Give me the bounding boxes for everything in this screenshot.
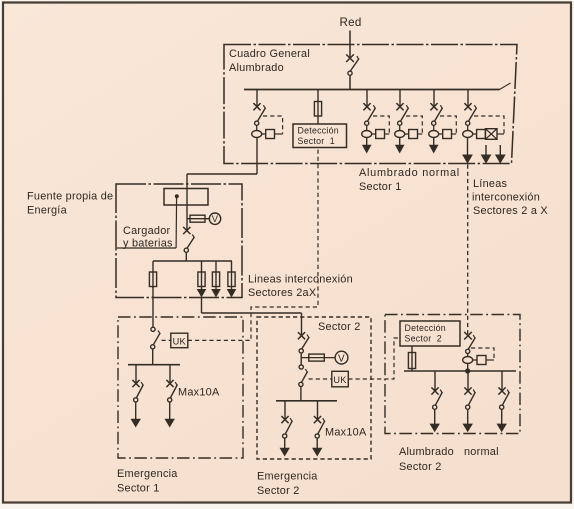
contactor Q4 operating coil bbox=[463, 131, 473, 138]
svg-text:Emergencia: Emergencia bbox=[257, 471, 318, 483]
contactor QB mech linkage dashed bbox=[263, 116, 283, 134]
wire charger feed into battery box bbox=[186, 174, 188, 231]
switch N2c cross mark bbox=[498, 387, 505, 394]
svg-text:Alumbrado: Alumbrado bbox=[399, 446, 454, 458]
contactor Q1 aux block bbox=[376, 130, 385, 139]
svg-text:Alumbrado normal: Alumbrado normal bbox=[359, 167, 460, 179]
wire drop N2b bbox=[467, 371, 469, 391]
switch S2in blade bbox=[302, 335, 309, 349]
label Alumbrado normal (sector1) bbox=[359, 167, 460, 179]
contactor K1 bottom contact bbox=[151, 345, 155, 349]
switch S2in cross mark bbox=[298, 332, 305, 339]
switch S1b blade bbox=[170, 382, 177, 398]
svg-text:Sectores 2aX: Sectores 2aX bbox=[248, 287, 317, 299]
svg-text:UK: UK bbox=[333, 375, 347, 385]
wire Q1 contact to coil bbox=[366, 125, 368, 130]
svg-text:Detección: Detección bbox=[405, 323, 446, 333]
contactor A2 mech linkage dashed bbox=[471, 348, 494, 360]
label leader line from battery dot bbox=[175, 196, 178, 248]
dashed link blade to UK2 bbox=[309, 378, 332, 380]
wire Q1 coil to aux block bbox=[372, 133, 376, 135]
arrow N2b lamp feeder bbox=[463, 424, 473, 433]
node Red label bbox=[340, 16, 362, 29]
svg-text:Sector 2: Sector 2 bbox=[318, 321, 361, 333]
breaker Q2 blade bbox=[400, 105, 408, 121]
bus battery distribution bbox=[153, 260, 232, 262]
wire N2c to arrow bbox=[501, 409, 503, 424]
wire bus drop Q2 bbox=[399, 89, 401, 107]
contactor Q2 mech linkage dashed bbox=[406, 116, 422, 134]
svg-text:Lineas interconexión: Lineas interconexión bbox=[248, 274, 353, 286]
svg-text:Alumbrado: Alumbrado bbox=[229, 62, 284, 74]
switch S2b cross mark bbox=[314, 416, 321, 423]
svg-text:Energía: Energía bbox=[27, 205, 68, 217]
contactor K2 blade bbox=[302, 369, 308, 382]
wire sector2 feed horizontal bbox=[202, 312, 302, 314]
contactor A2 operating coil bbox=[463, 357, 473, 364]
arrow S2a lamp feeder bbox=[280, 448, 290, 457]
switch S1a cross mark bbox=[132, 380, 139, 387]
arrow S1b lamp feeder bbox=[165, 419, 175, 428]
wire S1a to arrow bbox=[135, 402, 137, 419]
label Sector 1 bbox=[359, 181, 402, 193]
contactor Q3 aux block bbox=[443, 130, 452, 139]
fuse F1 detection sector 1 bbox=[314, 102, 321, 117]
wire drop S2b bbox=[317, 401, 319, 420]
label y baterias bbox=[123, 237, 173, 249]
arrow S2b lamp feeder bbox=[312, 448, 322, 457]
switch N2c blade bbox=[502, 390, 509, 406]
contactor Q3 mech linkage dashed bbox=[440, 116, 456, 134]
breaker Q1 hinge contact bbox=[365, 121, 369, 125]
bus main distribution bbox=[244, 89, 500, 91]
fuse interconnection 1 bbox=[198, 272, 205, 287]
arrow interconnection 1 bbox=[197, 289, 207, 298]
wire sector2 feed drop bbox=[301, 313, 303, 336]
contactor Q4 mech linkage dashed bbox=[474, 116, 504, 134]
switch A2 cross mark bbox=[464, 332, 472, 340]
arrow interconnection 2 bbox=[211, 289, 221, 298]
arrow Q4 interconnection feeder bbox=[462, 155, 473, 164]
switch S1b cross mark bbox=[166, 380, 173, 387]
contactor A2 aux block bbox=[477, 356, 486, 365]
wire QB contact to coil bbox=[256, 125, 258, 130]
switch battery cross mark bbox=[183, 227, 190, 234]
label Energia bbox=[27, 205, 68, 217]
wire S2b to arrow bbox=[316, 438, 318, 448]
switch battery blade bbox=[187, 234, 195, 248]
wire charger feed horizontal bbox=[187, 173, 257, 175]
svg-text:Sector 2: Sector 2 bbox=[399, 461, 442, 473]
wire K1 to bus bbox=[152, 349, 154, 365]
breaker Q3 cross mark bbox=[430, 103, 437, 110]
wire sector2 feed down bbox=[201, 298, 203, 314]
switch Q0 hinge contact bbox=[348, 71, 352, 75]
wire Q1 linkage stub bbox=[385, 133, 390, 135]
label Fuente propia de bbox=[27, 191, 113, 203]
wire interconnection drop 3 bbox=[231, 261, 233, 290]
switch N2a hinge contact bbox=[433, 405, 437, 409]
label box bottom edge Cargador bbox=[117, 247, 176, 249]
svg-text:Sector 1: Sector 1 bbox=[117, 483, 160, 495]
switch S1b hinge contact bbox=[168, 398, 172, 402]
wire interconnection drop 1 bbox=[201, 261, 203, 290]
svg-text:Emergencia: Emergencia bbox=[117, 468, 178, 480]
wire S2 mid bbox=[300, 353, 302, 365]
dashed link UK2 to detection2 bbox=[348, 338, 400, 379]
svg-text:Sector 1: Sector 1 bbox=[359, 181, 402, 193]
label Deteccion (sector 1) bbox=[298, 126, 339, 136]
wire A2 linkage stub bbox=[486, 359, 494, 361]
bus emergencia sector 1 bbox=[128, 364, 180, 366]
label Emergencia (2) bbox=[257, 471, 318, 483]
dashed link blade to UK1 bbox=[162, 339, 171, 341]
breaker Q1 cross mark bbox=[363, 103, 370, 110]
enclosure Emergencia Sector 1 bbox=[118, 317, 243, 458]
contactor QB operating coil bbox=[252, 131, 262, 138]
svg-text:Max10A: Max10A bbox=[325, 427, 367, 439]
breaker Q2 cross mark bbox=[396, 103, 403, 110]
wire S2a to arrow bbox=[284, 438, 286, 448]
switch S2in hinge contact bbox=[299, 349, 303, 353]
dashed interconnection line vertical bbox=[467, 165, 469, 336]
wire bus drop detection 1 bbox=[317, 89, 319, 124]
contactor K1 blade bbox=[153, 330, 160, 344]
wire drop N2a bbox=[434, 371, 436, 391]
label Lineas (right) bbox=[473, 178, 508, 190]
svg-text:Cuadro General: Cuadro General bbox=[229, 48, 310, 60]
wire bus drop Q3 bbox=[433, 89, 435, 107]
wire voltmeter tap 2 bbox=[301, 357, 335, 359]
wire QB linkage stub bbox=[275, 133, 283, 135]
wire emergency line down bbox=[152, 287, 154, 328]
svg-text:normal: normal bbox=[464, 446, 499, 458]
svg-text:Sector 2: Sector 2 bbox=[405, 334, 442, 344]
breaker QB cross mark bbox=[253, 103, 260, 110]
switch N2c hinge contact bbox=[500, 405, 504, 409]
svg-text:Sector 1: Sector 1 bbox=[298, 136, 335, 146]
contactor Q4 crossed aux block bbox=[485, 129, 497, 140]
contactor Q1 mech linkage dashed bbox=[373, 116, 389, 134]
wire Q0 to bus bbox=[349, 75, 351, 89]
contactor K2 bottom contact bbox=[299, 382, 303, 386]
wire bus drop Q4 bbox=[467, 89, 469, 107]
switch battery hinge contact bbox=[184, 248, 188, 252]
wire bus drop charger feed bbox=[256, 89, 258, 107]
label Cuadro General bbox=[229, 48, 310, 60]
label normal (bottom right) bbox=[464, 446, 499, 458]
label Sector 2 (bottom) bbox=[257, 485, 300, 497]
switch S2a blade bbox=[285, 418, 292, 434]
fuse interconnection 2 bbox=[212, 272, 219, 287]
label Alumbrado (bottom right) bbox=[399, 446, 454, 458]
label Sectores 2aX (right) bbox=[473, 205, 548, 217]
label Sectores 2aX (mid) bbox=[248, 287, 317, 299]
svg-text:y baterias: y baterias bbox=[123, 237, 173, 249]
wire Q1 outgoing bbox=[366, 138, 368, 146]
arrow S1a lamp feeder bbox=[131, 419, 141, 428]
wire charger feed down bbox=[256, 138, 258, 175]
device Deteccion Sector 1 box bbox=[293, 124, 347, 148]
enclosure Alumbrado normal Sector 2 bbox=[385, 315, 520, 434]
battery charger terminal dot bbox=[175, 194, 179, 198]
label Cargador bbox=[123, 225, 171, 237]
label Max10A sector 1 bbox=[178, 387, 220, 399]
svg-text:Sector 2: Sector 2 bbox=[257, 485, 300, 497]
wire Q4 contact to coil bbox=[467, 125, 469, 130]
arrow extra feeder b bbox=[495, 145, 506, 164]
contactor Q2 aux block bbox=[409, 130, 418, 139]
switch N2b blade bbox=[468, 390, 475, 406]
switch N2b cross mark bbox=[464, 387, 471, 394]
wire Q3 contact to coil bbox=[433, 125, 435, 130]
label Max10A sector 2 bbox=[325, 427, 367, 439]
switch S2b hinge contact bbox=[315, 434, 319, 438]
wire Q3 linkage stub bbox=[452, 133, 457, 135]
svg-text:Líneas: Líneas bbox=[473, 178, 508, 190]
enclosure Cargador y baterias bbox=[116, 184, 242, 298]
dashed link UK1 to detection1 path bbox=[188, 148, 318, 341]
wire drop N2c bbox=[501, 371, 503, 391]
junction dot sector 2 bus bbox=[465, 368, 470, 373]
wire Q2 outgoing bbox=[399, 138, 401, 146]
label UK sector 1 bbox=[173, 336, 187, 346]
switch S2a cross mark bbox=[281, 416, 288, 423]
bus end flick to enclosure edge bbox=[500, 83, 511, 90]
contactor K2 top contact bbox=[299, 365, 303, 369]
switch S1a blade bbox=[136, 382, 143, 398]
contactor Q4 aux block bbox=[477, 130, 486, 139]
switch N2b hinge contact bbox=[466, 405, 470, 409]
label Emergencia (1) bbox=[117, 468, 178, 480]
switch A2 blade bbox=[468, 335, 475, 349]
wire S1b to arrow bbox=[169, 402, 171, 419]
contactor QB aux block bbox=[266, 130, 275, 139]
label interconexion (right) bbox=[472, 192, 540, 204]
wire emergency drop bbox=[152, 261, 154, 288]
breaker Q1 blade bbox=[367, 105, 375, 121]
fuse detection sector 2 bbox=[408, 353, 415, 369]
switch Q0 blade bbox=[350, 56, 359, 71]
wire QB coil to aux block bbox=[262, 133, 266, 135]
label Sector 2 (bottom right) bbox=[399, 461, 442, 473]
voltmeter V2 bbox=[335, 351, 348, 364]
contactor K1 top contact bbox=[151, 327, 155, 331]
relay UK sector 1 box bbox=[171, 333, 188, 348]
svg-text:UK: UK bbox=[173, 336, 187, 346]
switch N2a blade bbox=[435, 390, 442, 406]
switch A2 hinge contact bbox=[466, 349, 470, 353]
label Alumbrado bbox=[229, 62, 284, 74]
switch S2b blade bbox=[318, 418, 325, 434]
label Sector 1 (detection) bbox=[298, 136, 335, 146]
svg-text:V: V bbox=[338, 354, 345, 365]
label Sector 1 (bottom) bbox=[117, 483, 160, 495]
fuse voltmeter 2 bbox=[309, 354, 325, 361]
arrow N2c lamp feeder bbox=[497, 424, 507, 433]
wire drop S2a bbox=[284, 401, 286, 420]
svg-text:Detección: Detección bbox=[298, 126, 339, 136]
arrow Q2 outgoing feeder bbox=[395, 145, 405, 154]
wire bus drop Q1 bbox=[366, 89, 368, 107]
switch N2a cross mark bbox=[431, 387, 438, 394]
wire A2 contact to coil bbox=[467, 354, 469, 357]
switch Q0 cross mark bbox=[346, 54, 354, 62]
label Lineas interconexion (mid) bbox=[248, 274, 353, 286]
contactor Q2 operating coil bbox=[395, 131, 405, 138]
enclosure Sector 2 bbox=[257, 317, 371, 459]
svg-text:interconexión: interconexión bbox=[472, 192, 540, 204]
wire battery switch to bus bbox=[185, 252, 187, 261]
device Deteccion Sector 2 box bbox=[400, 321, 460, 346]
wire Q4 linkage stub bbox=[497, 133, 504, 135]
voltmeter V1 bbox=[209, 213, 220, 224]
wire drop S1a bbox=[135, 365, 137, 384]
svg-text:Red: Red bbox=[340, 16, 362, 29]
wire Q3 coil to aux block bbox=[439, 133, 443, 135]
fuse voltmeter 1 bbox=[190, 215, 205, 222]
enclosure Cuadro General Alumbrado bbox=[224, 45, 517, 164]
arrow N2a lamp feeder bbox=[430, 424, 440, 433]
switch S2a hinge contact bbox=[283, 434, 287, 438]
wire N2a to arrow bbox=[434, 409, 436, 424]
wire N2b to arrow bbox=[467, 409, 469, 424]
breaker Q3 hinge contact bbox=[432, 121, 436, 125]
wire K2 to bus bbox=[300, 387, 302, 401]
label Sector 2 (detection) bbox=[405, 334, 442, 344]
battery charger unit box bbox=[164, 189, 208, 206]
breaker Q4 cross mark bbox=[464, 103, 471, 110]
wire Q4 coil to aux block bbox=[473, 133, 477, 135]
wire Q2 contact to coil bbox=[399, 125, 401, 130]
label Deteccion (sector 2) bbox=[405, 323, 446, 333]
breaker Q3 blade bbox=[434, 105, 442, 121]
svg-text:V: V bbox=[212, 214, 219, 224]
contactor Q3 operating coil bbox=[429, 131, 439, 138]
breaker Q4 blade bbox=[468, 105, 476, 121]
fuse interconnection 3 bbox=[228, 272, 235, 287]
label UK sector 2 bbox=[333, 375, 347, 385]
bus alumbrado sector 2 bbox=[404, 370, 516, 372]
breaker Q2 hinge contact bbox=[398, 121, 402, 125]
arrow extra feeder a bbox=[481, 145, 492, 164]
label Sector 2 title bbox=[318, 321, 361, 333]
wire voltmeter tap 1 bbox=[187, 218, 209, 220]
wire Q3 outgoing bbox=[433, 138, 435, 146]
arrow interconnection 3 bbox=[227, 289, 237, 298]
wire drop S1b bbox=[169, 365, 171, 384]
bus emergencia sector 2 bbox=[276, 400, 337, 402]
wire A2 coil to aux block bbox=[473, 359, 477, 361]
relay UK sector 2 box bbox=[332, 371, 349, 387]
wire detection2 to fuse bbox=[411, 346, 413, 371]
fuse emergency line bbox=[149, 272, 156, 287]
svg-text:Max10A: Max10A bbox=[178, 387, 220, 399]
svg-text:Cargador: Cargador bbox=[123, 225, 171, 237]
wire Q2 linkage stub bbox=[418, 133, 423, 135]
svg-text:Fuente propia de: Fuente propia de bbox=[27, 191, 113, 203]
wire Q4 outgoing bbox=[467, 138, 469, 156]
contactor Q1 operating coil bbox=[362, 131, 372, 138]
wire Red incoming bbox=[349, 31, 351, 59]
breaker QB hinge contact bbox=[255, 121, 259, 125]
arrow Q1 outgoing feeder bbox=[362, 145, 372, 154]
arrow Q3 outgoing feeder bbox=[429, 145, 439, 154]
svg-text:Sectores 2 a X: Sectores 2 a X bbox=[473, 205, 548, 217]
switch S1a hinge contact bbox=[134, 398, 138, 402]
breaker QB blade bbox=[257, 105, 265, 121]
wire A2 to bus bbox=[467, 364, 469, 372]
wire Q2 coil to aux block bbox=[405, 133, 409, 135]
wire interconnection drop 2 bbox=[215, 261, 217, 290]
breaker Q4 hinge contact bbox=[466, 121, 470, 125]
